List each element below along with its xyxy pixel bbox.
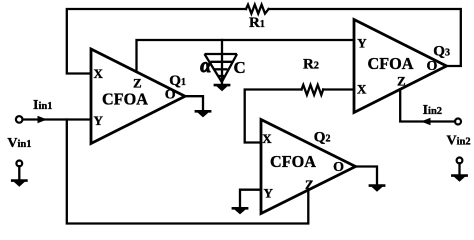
svg-text:Z: Z (305, 177, 314, 192)
svg-text:Iin2: Iin2 (423, 103, 442, 118)
svg-text:CFOA: CFOA (368, 54, 415, 73)
svg-text:CFOA: CFOA (270, 152, 317, 171)
svg-text:X: X (94, 66, 104, 81)
svg-text:Vin2: Vin2 (447, 133, 471, 148)
svg-text:Y: Y (264, 186, 274, 201)
svg-text:X: X (262, 131, 272, 146)
svg-text:Iin1: Iin1 (33, 98, 52, 113)
svg-text:Y: Y (94, 113, 104, 128)
svg-text:Z: Z (133, 76, 142, 91)
svg-text:Vin1: Vin1 (7, 136, 31, 151)
svg-text:Y: Y (357, 35, 367, 50)
svg-text:O: O (333, 160, 344, 175)
svg-text:X: X (357, 82, 367, 97)
svg-text:O: O (427, 59, 438, 74)
svg-text:O: O (165, 87, 176, 102)
svg-text:α: α (200, 55, 212, 77)
svg-text:Z: Z (397, 73, 406, 88)
svg-text:CFOA: CFOA (102, 90, 149, 109)
svg-text:C: C (234, 58, 246, 77)
